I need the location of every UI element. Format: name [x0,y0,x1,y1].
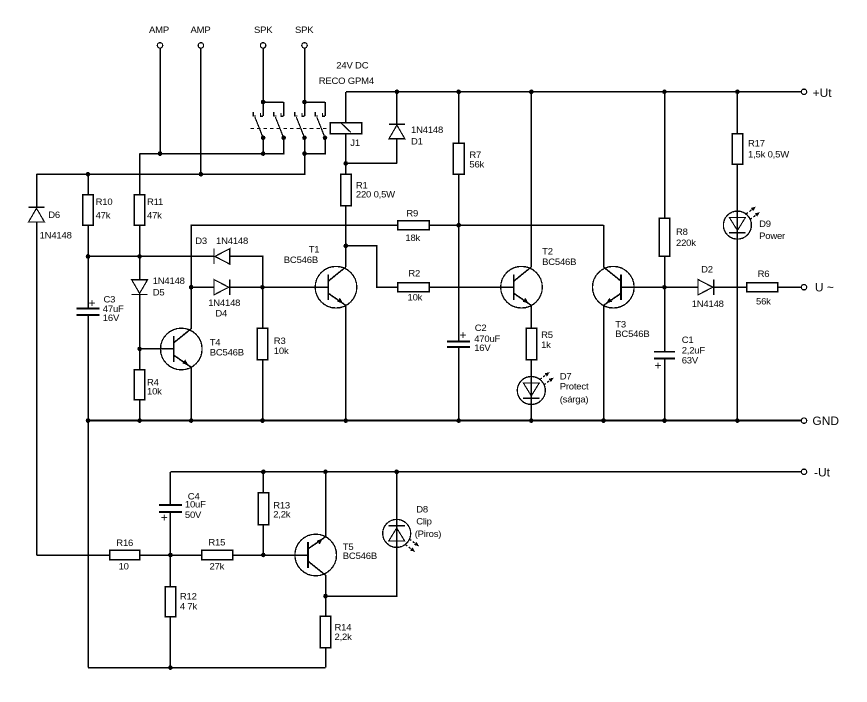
label C1 [682,335,694,346]
svg-text:D2: D2 [701,265,713,276]
node +Ut terminal [801,86,832,100]
svg-text:T1: T1 [309,244,320,255]
svg-text:BC546B: BC546B [284,255,318,266]
value label C4 10uF [185,500,206,511]
label C2 [475,323,487,334]
label J1 [350,138,360,149]
svg-text:D8: D8 [416,504,428,515]
diode D6 [29,174,110,555]
svg-text:1N4148: 1N4148 [40,230,72,241]
label R1 [356,180,368,191]
diode D1 [346,92,405,164]
wire T1 collector to R2 branch [344,244,398,288]
label R7 [469,150,481,161]
svg-text:C2: C2 [475,323,487,334]
resistor R4 [134,349,145,421]
value label R1 220 0,5W [356,189,395,200]
svg-text:10k: 10k [408,292,423,303]
label T4 [210,337,221,348]
svg-text:D3: D3 [195,236,207,247]
svg-text:R8: R8 [676,227,688,238]
value label D6 1N4148 [40,230,72,241]
wire R9 to T3 collector [429,223,604,267]
value label R6 56k [756,297,771,308]
svg-text:R11: R11 [147,197,163,208]
svg-text:U ~: U ~ [815,281,834,295]
value label R9 18k [405,233,420,244]
resistor R11 [134,154,145,257]
svg-text:Clip: Clip [416,516,432,527]
svg-text:(Piros): (Piros) [415,529,442,540]
wire relay actuator dashed link [250,127,330,129]
svg-text:R15: R15 [208,538,225,549]
label D9 Power [759,231,785,242]
label T1 [309,244,320,255]
transistor T4 [161,328,203,370]
wire -Ut rail [170,470,801,475]
value label R2 10k [408,292,423,303]
node SPK terminal 1 [254,25,273,48]
resistor R7 [453,92,464,341]
label D8 Clip [416,516,432,527]
resistor R15 [202,550,233,559]
svg-text:1N4148: 1N4148 [216,236,248,247]
value label R14 2,2k [335,632,353,643]
label D4 [215,308,227,319]
wire T5 emitter to -Ut [325,472,327,537]
label relay RECO GPM4 [319,76,374,87]
resistor R3 [257,287,268,420]
wire SPK1 down [262,48,264,102]
value label C4 50V [185,510,202,521]
svg-text:10: 10 [119,561,129,572]
svg-text:AMP: AMP [149,25,169,36]
value label R15 27k [210,561,225,572]
svg-text:R9: R9 [406,209,418,220]
label D8 (Piros) [415,529,442,540]
label D7 [560,372,572,383]
svg-text:BC546B: BC546B [343,551,377,562]
svg-text:16V: 16V [474,343,491,354]
label R15 [208,538,225,549]
diode D3 [214,249,230,264]
value label R17 1,5k 0,5W [748,150,789,161]
node SPK terminal 2 [295,25,314,48]
node U~ terminal [801,281,834,295]
svg-text:D9: D9 [759,219,771,230]
svg-text:D6: D6 [48,210,60,221]
label R11 [147,197,163,208]
resistor R5 [526,328,537,377]
capacitor C3 [77,256,100,420]
svg-text:RECO GPM4: RECO GPM4 [319,76,374,87]
svg-text:+: + [89,296,96,310]
label R4 [147,377,159,388]
resistor R16 [110,550,140,559]
value label T3 BC546B [615,329,649,340]
wire relay contact feed 1 [261,100,284,105]
resistor R13 [258,472,269,555]
svg-text:+: + [460,328,467,342]
svg-text:56k: 56k [756,297,771,308]
wire AMP2 to lower contact bus [200,48,202,174]
svg-text:R10: R10 [96,197,113,208]
value label C2 470uF [474,334,500,345]
transistor T2 [501,266,543,308]
transistor T3 [593,266,635,308]
svg-text:Power: Power [759,231,785,242]
wire T4 collector [190,287,192,329]
svg-text:220 0,5W: 220 0,5W [356,189,395,200]
svg-text:27k: 27k [210,561,225,572]
value label R11 47k [147,211,162,222]
capacitor C2 [447,328,470,421]
wire D3 to node B [230,256,263,287]
svg-text:56k: 56k [469,159,484,170]
relay contact K2a [295,102,307,140]
relay coil J1 [330,92,361,175]
wire T4 emitter to GND [190,367,192,420]
svg-text:GND: GND [812,414,839,428]
value label R8 220k [676,238,696,249]
value label R12 47k [180,602,198,613]
wire bottom return line [88,665,326,670]
label R14 [335,623,352,634]
label R8 [676,227,688,238]
LED D7 [517,372,554,421]
resistor R8 [659,92,670,352]
wire T1 emitter to GND [345,305,347,420]
svg-text:+Ut: +Ut [813,86,833,100]
value label C2 16V [474,343,491,354]
svg-text:1N4148: 1N4148 [692,299,724,310]
node AMP terminal 2 [191,25,211,48]
svg-text:50V: 50V [185,510,202,521]
value label D3 1N4148 [216,236,248,247]
label C4 [188,491,200,502]
label R5 [541,330,553,341]
resistor R10 [83,174,94,256]
resistor R2 [398,283,514,292]
wire T5 collector node [323,575,328,598]
capacitor C4 [159,472,182,555]
svg-text:R17: R17 [748,138,765,149]
wire node A vertical [189,225,194,289]
label R10 [96,197,113,208]
wire node A to R9 [191,225,398,287]
label D8 [416,504,428,515]
svg-text:1N4148: 1N4148 [153,276,185,287]
wire AMP1 to contact bus [159,48,161,154]
transistor T5 [295,534,337,576]
value label C3 16V [103,313,120,324]
node AMP terminal 1 [149,25,169,48]
label D1 [411,137,423,148]
capacitor C1 [654,352,675,421]
svg-text:10k: 10k [147,387,162,398]
wire T3 base to node C [621,286,665,288]
label D3 [195,236,207,247]
label T3 [615,320,626,331]
value label T1 BC546B [284,255,318,266]
value label D4 1N4148 [208,298,240,309]
svg-text:47k: 47k [96,211,111,222]
resistor R12 [165,555,176,668]
relay contact K1a [253,102,265,140]
svg-text:R16: R16 [116,538,133,549]
svg-text:R6: R6 [758,269,770,280]
label D7 (sarga) [560,394,589,405]
svg-text:D4: D4 [215,308,227,319]
svg-text:1,5k 0,5W: 1,5k 0,5W [748,150,789,161]
label D1 1N4148 [411,125,443,136]
svg-text:+: + [655,359,662,373]
value label R10 47k [96,211,111,222]
value label D2 1N4148 [692,299,724,310]
value label D5 1N4148 [153,276,185,287]
label relay 24V DC [336,60,368,71]
svg-text:4 7k: 4 7k [180,602,198,613]
label R9 [406,209,418,220]
svg-text:D1: D1 [411,137,423,148]
LED D9 [723,207,760,421]
wire relay contact feed 2 [302,100,325,105]
svg-text:(sárga): (sárga) [560,394,589,405]
wire GND rail [86,418,802,423]
svg-text:16V: 16V [103,313,120,324]
value label R3 10k [274,346,289,357]
wire T3 emitter to GND [603,305,605,420]
wire node A to D4 [191,286,214,288]
svg-text:BC546B: BC546B [615,329,649,340]
svg-text:J1: J1 [350,138,360,149]
svg-text:Protect: Protect [560,382,589,393]
value label C1 63V [682,355,699,366]
wire R15 to T5 base [233,553,308,558]
LED D8 [383,472,420,552]
resistor R17 [732,92,743,212]
resistor R9 [398,221,429,230]
svg-text:220k: 220k [676,238,696,249]
svg-text:47k: 47k [147,211,162,222]
value label R7 56k [469,159,484,170]
svg-text:18k: 18k [405,233,420,244]
wire R16 to R15 [140,553,202,558]
wire T5 collector to D8 [326,547,397,596]
svg-text:BC546B: BC546B [210,347,244,358]
label D6 [48,210,60,221]
wire GND drop to bottom line [87,421,89,668]
svg-text:1k: 1k [541,340,551,351]
label D7 Protect [560,382,589,393]
resistor R6 [747,283,802,292]
wire SPK2 down [304,48,306,102]
wire +Ut rail [346,90,801,95]
svg-text:AMP: AMP [191,25,211,36]
svg-text:+: + [161,511,168,525]
transistor T1 [315,266,357,308]
label T2 [542,247,553,258]
label R2 [408,269,420,280]
label C3 [104,295,116,306]
svg-text:2,2k: 2,2k [273,510,291,521]
svg-text:10k: 10k [274,346,289,357]
svg-text:-Ut: -Ut [814,466,831,480]
label R17 [748,138,765,149]
diode D4 [214,280,230,295]
label R3 [274,336,286,347]
value label R5 1k [541,340,551,351]
svg-text:BC546B: BC546B [542,257,576,268]
svg-text:2,2k: 2,2k [335,632,353,643]
wire contact bus 1 (AMP1 to K1 blades) [140,138,284,156]
value label T2 BC546B [542,257,576,268]
svg-text:R2: R2 [408,269,420,280]
resistor R14 [320,596,331,668]
label D9 [759,219,771,230]
wire R10-R11 bottom line [86,254,214,259]
label D2 [701,265,713,276]
resistor R1 [341,174,352,245]
svg-text:1N4148: 1N4148 [411,125,443,136]
value label C1 2,2uF [682,345,706,356]
svg-text:D5: D5 [153,288,165,299]
value label T4 BC546B [210,347,244,358]
value label C3 47uF [103,304,124,315]
label R12 [180,592,197,603]
node -Ut terminal [801,466,830,480]
label R16 [116,538,133,549]
value label R16 10 [119,561,129,572]
label R13 [273,501,290,512]
wire contact bus 2 (AMP2 to K2 blades) [37,138,326,177]
node GND terminal [801,414,839,428]
svg-text:SPK: SPK [295,25,314,36]
diode D2 [665,280,747,295]
label T5 [343,542,354,553]
relay contact K1b [274,102,286,140]
wire T4 base [137,347,173,352]
svg-text:SPK: SPK [254,25,273,36]
wire T2 collector to +Ut [530,92,532,267]
value label R4 10k [147,387,162,398]
diode D5 [132,256,148,349]
value label R13 2,2k [273,510,291,521]
label D5 [153,288,165,299]
wire T2 emitter to R5 [530,305,532,328]
svg-text:63V: 63V [682,355,699,366]
wire D4 to T1 base [230,285,328,290]
svg-text:24V DC: 24V DC [336,60,368,71]
value label T5 BC546B [343,551,377,562]
relay contact K2b [315,102,327,140]
label R6 [758,269,770,280]
